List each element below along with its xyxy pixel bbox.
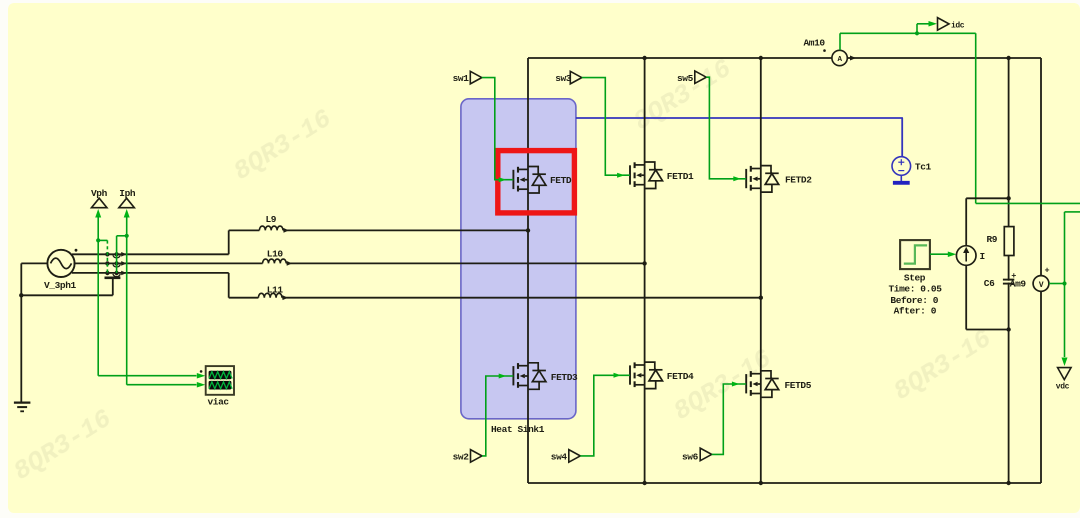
svg-text:FETD3: FETD3 bbox=[551, 372, 578, 383]
node current taps bbox=[113, 252, 120, 276]
node neutral junction bbox=[19, 293, 23, 297]
highlight box bbox=[498, 151, 575, 213]
wire V sense bbox=[1049, 212, 1080, 366]
temperature source Tc1 bbox=[892, 157, 932, 183]
wire phase direction arrows bbox=[121, 252, 126, 275]
wire I loop top bbox=[966, 196, 1011, 246]
wire sw4 bbox=[580, 373, 630, 456]
wire sw5 bbox=[706, 77, 746, 181]
svg-text:V_3ph1: V_3ph1 bbox=[44, 280, 77, 291]
svg-text:Iph: Iph bbox=[119, 188, 136, 199]
transistor FETD2 bbox=[746, 166, 812, 193]
probe sw1 bbox=[453, 71, 482, 84]
wire bottom bus bbox=[528, 482, 1041, 484]
svg-text:Step: Step bbox=[904, 273, 926, 284]
probe vdc bbox=[1056, 368, 1071, 392]
wire right rail bbox=[1040, 58, 1042, 483]
svg-text:L10: L10 bbox=[267, 249, 284, 260]
wire step to I bbox=[930, 251, 956, 257]
probe idc bbox=[938, 18, 965, 31]
thermal wire bbox=[576, 118, 903, 157]
probe Vph bbox=[91, 188, 108, 208]
svg-text:sw3: sw3 bbox=[555, 73, 572, 84]
neutral bar bbox=[21, 278, 120, 296]
wire sw2 bbox=[482, 374, 513, 456]
svg-text:FETD5: FETD5 bbox=[785, 380, 812, 391]
resistor R9 bbox=[987, 227, 1014, 256]
node voltage taps bbox=[105, 252, 109, 275]
heat sink Heat Sink1 bbox=[461, 99, 576, 435]
svg-text:Heat Sink1: Heat Sink1 bbox=[491, 424, 545, 435]
wire Iph bbox=[117, 209, 206, 387]
probe sw4 bbox=[551, 450, 581, 463]
svg-text:V: V bbox=[1039, 282, 1044, 290]
svg-text:R9: R9 bbox=[987, 234, 998, 245]
wire sw6 bbox=[712, 382, 746, 455]
svg-text:L11: L11 bbox=[267, 284, 284, 295]
inductor L11 bbox=[258, 284, 288, 300]
voltmeter V bbox=[1033, 265, 1049, 291]
transistor FETD bbox=[513, 167, 572, 194]
node phase mid junctions bbox=[526, 228, 763, 300]
svg-text:Am9: Am9 bbox=[1010, 279, 1027, 290]
inductor L9 bbox=[259, 214, 289, 233]
svg-text:FETD1: FETD1 bbox=[667, 171, 694, 182]
svg-text:FETD4: FETD4 bbox=[667, 371, 694, 382]
probe sw2 bbox=[453, 450, 482, 463]
capacitor C6 bbox=[984, 271, 1027, 289]
probe sw6 bbox=[682, 448, 712, 462]
ammeter Am10 bbox=[804, 37, 857, 65]
wire Vph bbox=[95, 209, 205, 378]
svg-text:sw2: sw2 bbox=[453, 451, 470, 462]
svg-text:idc: idc bbox=[951, 21, 965, 30]
inductor L10 bbox=[263, 249, 293, 266]
wire sw3 bbox=[582, 78, 630, 178]
wire sw1 bbox=[482, 78, 514, 183]
transistor FETD3 bbox=[513, 363, 578, 390]
svg-text:vdc: vdc bbox=[1056, 383, 1070, 392]
svg-text:sw5: sw5 bbox=[677, 73, 694, 84]
step source Step bbox=[889, 240, 943, 316]
svg-text:L9: L9 bbox=[266, 214, 277, 225]
transistor FETD4 bbox=[630, 362, 694, 389]
wire dc-link sense bbox=[976, 33, 1080, 203]
svg-text:Before: 0: Before: 0 bbox=[890, 295, 938, 306]
svg-text:viac: viac bbox=[208, 397, 230, 408]
transistor FETD1 bbox=[630, 162, 694, 189]
wire source to ground bbox=[21, 263, 47, 402]
probe sw5 bbox=[677, 71, 706, 84]
wire leg C bbox=[760, 58, 762, 483]
scope viac bbox=[200, 366, 234, 408]
probe sw3 bbox=[555, 71, 582, 84]
svg-text:sw6: sw6 bbox=[682, 451, 699, 462]
svg-text:FETD: FETD bbox=[550, 175, 572, 186]
node top bus junctions bbox=[642, 56, 1010, 60]
svg-text:I: I bbox=[980, 251, 985, 262]
svg-text:+: + bbox=[1045, 265, 1050, 275]
ground bbox=[14, 403, 31, 412]
wire leg B bbox=[644, 58, 646, 483]
svg-text:Time: 0.05: Time: 0.05 bbox=[889, 283, 943, 294]
node bottom bus junctions bbox=[642, 481, 1010, 485]
current source I bbox=[956, 246, 984, 266]
wire R9/C6 rail bbox=[1008, 58, 1010, 483]
svg-text:After: 0: After: 0 bbox=[894, 305, 937, 316]
svg-text:Tc1: Tc1 bbox=[915, 162, 932, 173]
wire leg A bbox=[527, 58, 529, 483]
wire Am10 signal bbox=[840, 21, 976, 50]
svg-text:sw4: sw4 bbox=[551, 451, 568, 462]
svg-text:C6: C6 bbox=[984, 278, 995, 289]
wire phase B bbox=[74, 262, 645, 264]
wire phase A bbox=[72, 230, 528, 254]
transistor FETD5 bbox=[746, 371, 812, 398]
svg-text:Am10: Am10 bbox=[804, 37, 826, 48]
svg-text:Vph: Vph bbox=[91, 188, 108, 199]
svg-text:sw1: sw1 bbox=[453, 73, 470, 84]
svg-text:FETD2: FETD2 bbox=[785, 174, 812, 185]
probe Iph bbox=[119, 188, 136, 208]
source V_3ph1 bbox=[44, 249, 77, 291]
wire phase C bbox=[72, 273, 761, 298]
wire top bus bbox=[528, 57, 1041, 59]
wire I loop bottom bbox=[966, 265, 1011, 331]
